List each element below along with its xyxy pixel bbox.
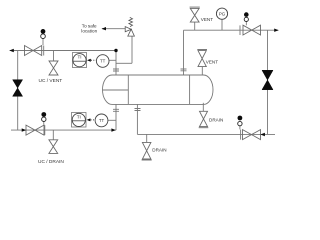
wire top-left outlet line — [10, 50, 116, 52]
valve gate top-right — [243, 25, 261, 35]
svg-text:DRAIN: DRAIN — [152, 148, 166, 153]
junction node — [114, 49, 117, 52]
tubesheet left — [127, 75, 129, 104]
svg-text:TT: TT — [100, 59, 106, 64]
svg-text:UC / DRAIN: UC / DRAIN — [38, 159, 64, 165]
valve gate bottom-left — [26, 125, 44, 135]
wire PSV connector — [116, 62, 132, 64]
flanges — [44, 25, 241, 139]
arrow to safe location — [102, 27, 107, 30]
valve closed right bypass — [262, 70, 273, 89]
wire vent2 stub — [194, 22, 196, 30]
wire bottom riser to vessel — [115, 104, 117, 130]
spectacle blind bottom-left — [41, 112, 46, 125]
pass partition — [103, 89, 129, 91]
svg-text:DRAIN: DRAIN — [209, 118, 223, 123]
flange top-right nozzle — [181, 69, 187, 71]
vessel E-1 heat exchanger shell — [103, 75, 214, 104]
valve closed left bypass — [13, 80, 23, 97]
relief valve PSV — [125, 17, 134, 36]
svg-text:TI: TI — [77, 114, 81, 119]
arrow bottom-right inlet — [260, 133, 265, 136]
instrument TT top — [96, 55, 109, 68]
spectacle blind top-right — [244, 12, 249, 25]
svg-text:To safe: To safe — [82, 23, 97, 28]
flange tick top-right valve — [239, 25, 241, 35]
valve gate bottom-right — [243, 130, 261, 140]
flange top-left nozzle — [113, 69, 119, 71]
valve UC/VENT — [49, 61, 58, 75]
instrument TI bottom (shared display) — [72, 113, 87, 128]
svg-text:VENT: VENT — [206, 59, 218, 64]
wire PSV outlet to safe location — [102, 28, 125, 30]
instrument TT bottom — [95, 114, 108, 127]
signal dotted line bottom — [91, 119, 96, 121]
spectacle blind bottom-right — [238, 116, 243, 130]
arrow into bottom riser — [111, 128, 116, 131]
signal arrow bottom — [87, 118, 91, 121]
valve DRAIN right — [199, 111, 209, 127]
wire top-right riser — [183, 30, 185, 75]
wire mid drain valve stub — [146, 134, 148, 142]
wire TT bottom tap — [108, 119, 116, 121]
svg-text:UC / VENT: UC / VENT — [39, 78, 63, 84]
valve UC/DRAIN — [49, 140, 58, 154]
valve gate top-left — [25, 46, 42, 56]
wire top-right outlet line — [184, 29, 279, 31]
arrow top-right outlet — [274, 29, 279, 32]
wire right drain stub — [202, 103, 204, 112]
wire top-left riser to vessel nozzle — [115, 51, 117, 76]
flange tick bottom-right valve — [240, 130, 242, 140]
valve VENT right of vessel — [197, 50, 207, 67]
flange bottom-left nozzle — [113, 109, 119, 111]
wire PSV riser — [131, 36, 133, 63]
wire TT top tap — [109, 59, 116, 61]
instrument PG — [216, 8, 227, 19]
wire right vent stub — [201, 67, 203, 75]
spectacle blind top-left — [41, 29, 46, 45]
tubesheet right — [189, 75, 191, 104]
flange drain nozzle — [135, 109, 141, 111]
svg-text:VENT: VENT — [201, 17, 213, 22]
wire left bypass vertical — [17, 51, 19, 131]
svg-text:location: location — [81, 29, 97, 34]
flange tick bottom-left valve — [44, 125, 46, 135]
wire UC/VENT stub — [53, 51, 55, 62]
arrow outlet left — [9, 49, 14, 52]
valve DRAIN mid — [142, 142, 152, 160]
wire UC/DRAIN stub — [52, 130, 54, 140]
wire bottom-left inlet line — [11, 129, 116, 131]
wire PG stem — [221, 19, 223, 30]
signal dotted line top — [91, 59, 97, 61]
valve VENT top line — [190, 7, 200, 22]
signal arrow top — [87, 59, 91, 62]
svg-text:TT: TT — [99, 118, 105, 123]
wire drain riser — [136, 104, 138, 134]
instrument TI top (shared display) — [73, 53, 87, 68]
wire right bypass vertical — [267, 30, 269, 134]
svg-text:TI: TI — [77, 55, 81, 60]
arrow bottom-left flow — [22, 128, 27, 131]
wire drain header — [137, 133, 275, 135]
svg-text:PG: PG — [219, 11, 226, 16]
flange tick top-left valve — [43, 46, 45, 56]
